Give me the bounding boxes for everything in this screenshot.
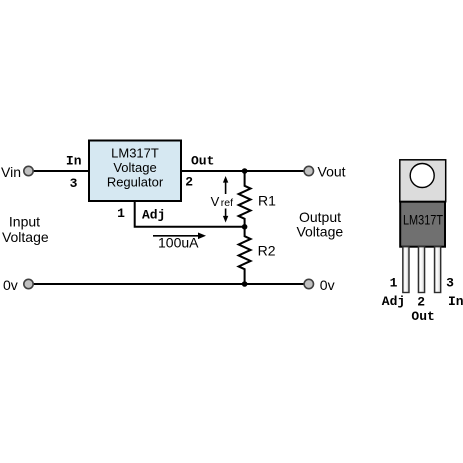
svg-text:Vin: Vin [1, 164, 21, 180]
TO-220 pin label In [448, 294, 463, 309]
TO-220 pin label 2 [417, 294, 425, 309]
label 0v right [320, 277, 335, 293]
svg-text:0v: 0v [3, 277, 18, 293]
svg-text:In: In [66, 154, 82, 169]
label Vout [318, 164, 346, 180]
svg-text:Out: Out [191, 154, 214, 169]
label R2 [258, 242, 276, 258]
svg-text:2: 2 [417, 294, 425, 309]
label 100uA [158, 235, 199, 251]
TO-220 leg 2 [418, 247, 424, 293]
svg-text:R1: R1 [258, 193, 276, 209]
svg-text:Input: Input [9, 213, 40, 229]
TO-220 package tab [400, 160, 446, 202]
TO-220 pin number 1 [390, 275, 398, 290]
svg-text:3: 3 [70, 176, 78, 191]
TO-220 mounting hole [410, 164, 434, 188]
pin number 2 [185, 174, 193, 189]
resistor R1 [239, 171, 251, 227]
terminal Vout [304, 166, 313, 175]
svg-text:Voltage: Voltage [2, 229, 49, 245]
svg-text:LM317T: LM317T [111, 145, 159, 160]
100uA current arrow [153, 233, 206, 240]
pin number 3 [70, 176, 78, 191]
wire Adj (regulator bottom to R1/R2 junction) [135, 201, 245, 227]
node junction at Out line [242, 168, 248, 174]
svg-text:Voltage: Voltage [296, 224, 343, 240]
svg-text:In: In [448, 294, 463, 309]
terminal 0v left [24, 279, 33, 288]
resistor R2 [239, 227, 251, 284]
svg-text:Regulator: Regulator [107, 174, 164, 189]
TO-220 label LM317T [403, 212, 443, 228]
svg-text:Adj: Adj [382, 294, 405, 309]
svg-text:0v: 0v [320, 277, 335, 293]
pin label Adj [142, 208, 165, 223]
wire In (Vin terminal to regulator) [33, 170, 89, 172]
terminal 0v right [304, 279, 313, 288]
svg-text:100uA: 100uA [158, 235, 199, 251]
TO-220 leg 3 [435, 247, 441, 293]
TO-220 leg 1 [403, 247, 409, 293]
label Input Voltage [2, 213, 49, 245]
svg-text:1: 1 [390, 275, 398, 290]
svg-text:Out: Out [411, 309, 434, 324]
svg-text:1: 1 [117, 206, 125, 221]
svg-text:Adj: Adj [142, 208, 165, 223]
svg-text:V: V [211, 194, 220, 209]
label 0v left [3, 277, 18, 293]
label Output Voltage [296, 209, 343, 240]
node junction Adj/R1/R2 [242, 224, 248, 230]
regulator U1 LM317T [89, 141, 181, 202]
pin label Out [191, 154, 214, 169]
terminal Vin [24, 166, 33, 175]
svg-text:ref: ref [221, 197, 233, 209]
svg-text:R2: R2 [258, 242, 276, 258]
wire Out (regulator to Vout) [181, 170, 305, 172]
Vref arrow (double headed) [223, 176, 228, 223]
label Vin [1, 164, 21, 180]
TO-220 pin label Adj [382, 294, 405, 309]
pin number 1 [117, 206, 125, 221]
svg-text:Vout: Vout [318, 164, 346, 180]
node junction at 0v line [242, 281, 248, 287]
svg-text:LM317T: LM317T [403, 212, 443, 228]
label V ref [211, 194, 234, 209]
svg-text:3: 3 [446, 275, 454, 290]
TO-220 package body [400, 202, 445, 247]
svg-text:Voltage: Voltage [113, 160, 156, 175]
pin label In [66, 154, 82, 169]
svg-text:2: 2 [185, 174, 193, 189]
TO-220 pin label Out [411, 309, 434, 324]
TO-220 pin number 3 [446, 275, 454, 290]
wire 0v bottom rail [33, 283, 305, 285]
label R1 [258, 193, 276, 209]
